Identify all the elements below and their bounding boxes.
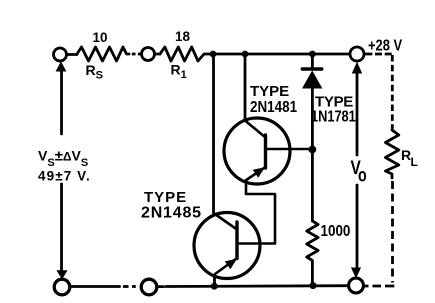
svg-text:18: 18: [175, 29, 191, 44]
svg-text:1000: 1000: [321, 223, 351, 240]
svg-text:TYPE: TYPE: [250, 83, 289, 100]
svg-text:2N1481: 2N1481: [250, 99, 297, 116]
svg-text:L: L: [411, 155, 418, 169]
svg-text:49±7 V.: 49±7 V.: [38, 169, 91, 184]
svg-text:10: 10: [93, 30, 108, 45]
svg-text:1N1781: 1N1781: [311, 108, 356, 126]
svg-text:+28 V: +28 V: [368, 37, 402, 55]
svg-text:TYPE: TYPE: [144, 189, 187, 206]
svg-text:2N1485: 2N1485: [141, 205, 202, 222]
svg-text:o: o: [358, 165, 367, 186]
